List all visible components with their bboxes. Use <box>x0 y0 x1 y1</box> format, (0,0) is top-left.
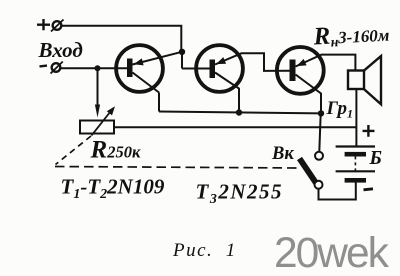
svg-text:Вк: Вк <box>271 144 294 164</box>
svg-text:Рис. 1: Рис. 1 <box>172 240 237 261</box>
svg-text:Вход: Вход <box>38 38 83 62</box>
svg-text:Б: Б <box>369 148 382 169</box>
svg-text:Т32N255: Т32N255 <box>196 180 284 208</box>
svg-text:20wek: 20wek <box>274 230 390 276</box>
